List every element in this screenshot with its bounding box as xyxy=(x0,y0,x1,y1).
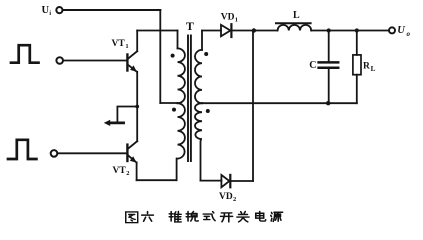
transformer T secondary winding xyxy=(195,31,202,181)
junction RL top xyxy=(355,28,359,32)
label VT2 xyxy=(113,166,130,177)
resistor RL xyxy=(353,31,361,104)
inductor L xyxy=(276,23,311,30)
wire VT1 emitter drop xyxy=(136,72,138,141)
wire secondary bottom to VD2 xyxy=(201,180,222,182)
svg-text:U: U xyxy=(42,5,50,16)
svg-text:R: R xyxy=(363,62,370,72)
wire primary center tap xyxy=(160,102,177,104)
wire bottom rail secondary center tap xyxy=(202,102,357,104)
svg-text:VD: VD xyxy=(221,13,235,23)
polarity dot primary bottom xyxy=(172,108,176,112)
svg-text:T: T xyxy=(186,19,194,33)
label Uo xyxy=(397,25,410,38)
label VD1 xyxy=(221,13,238,24)
wire VD1 cathode xyxy=(232,30,277,32)
node Ui input terminal xyxy=(56,7,62,13)
label VD2 xyxy=(219,192,236,203)
caption char 推 xyxy=(169,212,181,223)
svg-text:VT: VT xyxy=(112,39,126,49)
junction C top xyxy=(327,28,331,32)
wire secondary top to VD1 xyxy=(202,30,221,32)
pulse symbol input 1 xyxy=(11,45,39,63)
node Uo output terminal xyxy=(389,27,395,33)
wire collector to primary top xyxy=(137,30,177,32)
svg-text:U: U xyxy=(397,25,406,36)
wire VT2 emitter drop xyxy=(136,163,138,181)
caption char 六 xyxy=(142,212,154,222)
caption char 电 xyxy=(256,212,266,222)
node input terminal 1 xyxy=(56,57,63,64)
label Ui xyxy=(42,5,52,17)
diode VD2 xyxy=(221,175,230,187)
polarity dot secondary bottom xyxy=(206,109,210,113)
label VT1 xyxy=(112,39,129,50)
svg-text:C: C xyxy=(309,60,316,71)
svg-text:o: o xyxy=(407,30,411,38)
polarity dot primary top xyxy=(171,54,175,58)
wire VD2 cathode xyxy=(231,180,253,182)
transistor VT2 xyxy=(127,141,137,163)
svg-text:2: 2 xyxy=(233,196,236,203)
junction diode outputs xyxy=(252,28,256,32)
svg-text:2: 2 xyxy=(126,170,129,177)
wire Ui vertical drop xyxy=(159,11,161,104)
wire primary bottom stub xyxy=(176,159,178,181)
junction C bottom xyxy=(326,101,330,105)
polarity dot secondary top xyxy=(204,52,208,56)
caption char 图 xyxy=(126,212,138,223)
label C xyxy=(309,60,316,71)
wire Ui top xyxy=(63,9,161,11)
caption 图六 推挽式开关电源 xyxy=(126,212,283,223)
pulse symbol input 2 xyxy=(8,140,36,159)
capacitor C xyxy=(319,31,339,104)
svg-text:L: L xyxy=(371,65,376,73)
wire VT1 collector riser xyxy=(136,31,138,52)
label RL xyxy=(363,62,376,73)
caption char 式 xyxy=(203,212,215,221)
transformer core xyxy=(188,36,191,162)
svg-text:1: 1 xyxy=(235,17,238,24)
transistor VT1 xyxy=(127,51,137,72)
caption char 挽 xyxy=(186,212,198,222)
caption char 关 xyxy=(237,212,249,222)
svg-text:VT: VT xyxy=(113,166,127,176)
wire L to output xyxy=(311,30,389,32)
transformer T primary winding xyxy=(177,31,185,159)
junction emitter ground xyxy=(135,105,139,109)
diode VD1 xyxy=(221,24,231,37)
svg-text:L: L xyxy=(293,10,300,21)
wire base VT2 xyxy=(58,152,127,154)
caption char 源 xyxy=(271,212,283,221)
label L xyxy=(293,10,300,21)
node input terminal 2 xyxy=(51,150,58,157)
svg-text:i: i xyxy=(49,11,51,17)
svg-text:VD: VD xyxy=(219,192,233,202)
wire VD2 riser xyxy=(252,31,254,181)
label T xyxy=(186,19,194,33)
wire VT2 emitter to primary bottom xyxy=(137,179,177,181)
svg-text:1: 1 xyxy=(125,43,128,50)
wire base VT1 xyxy=(63,60,126,62)
ground xyxy=(104,107,137,127)
caption char 开 xyxy=(221,213,233,222)
